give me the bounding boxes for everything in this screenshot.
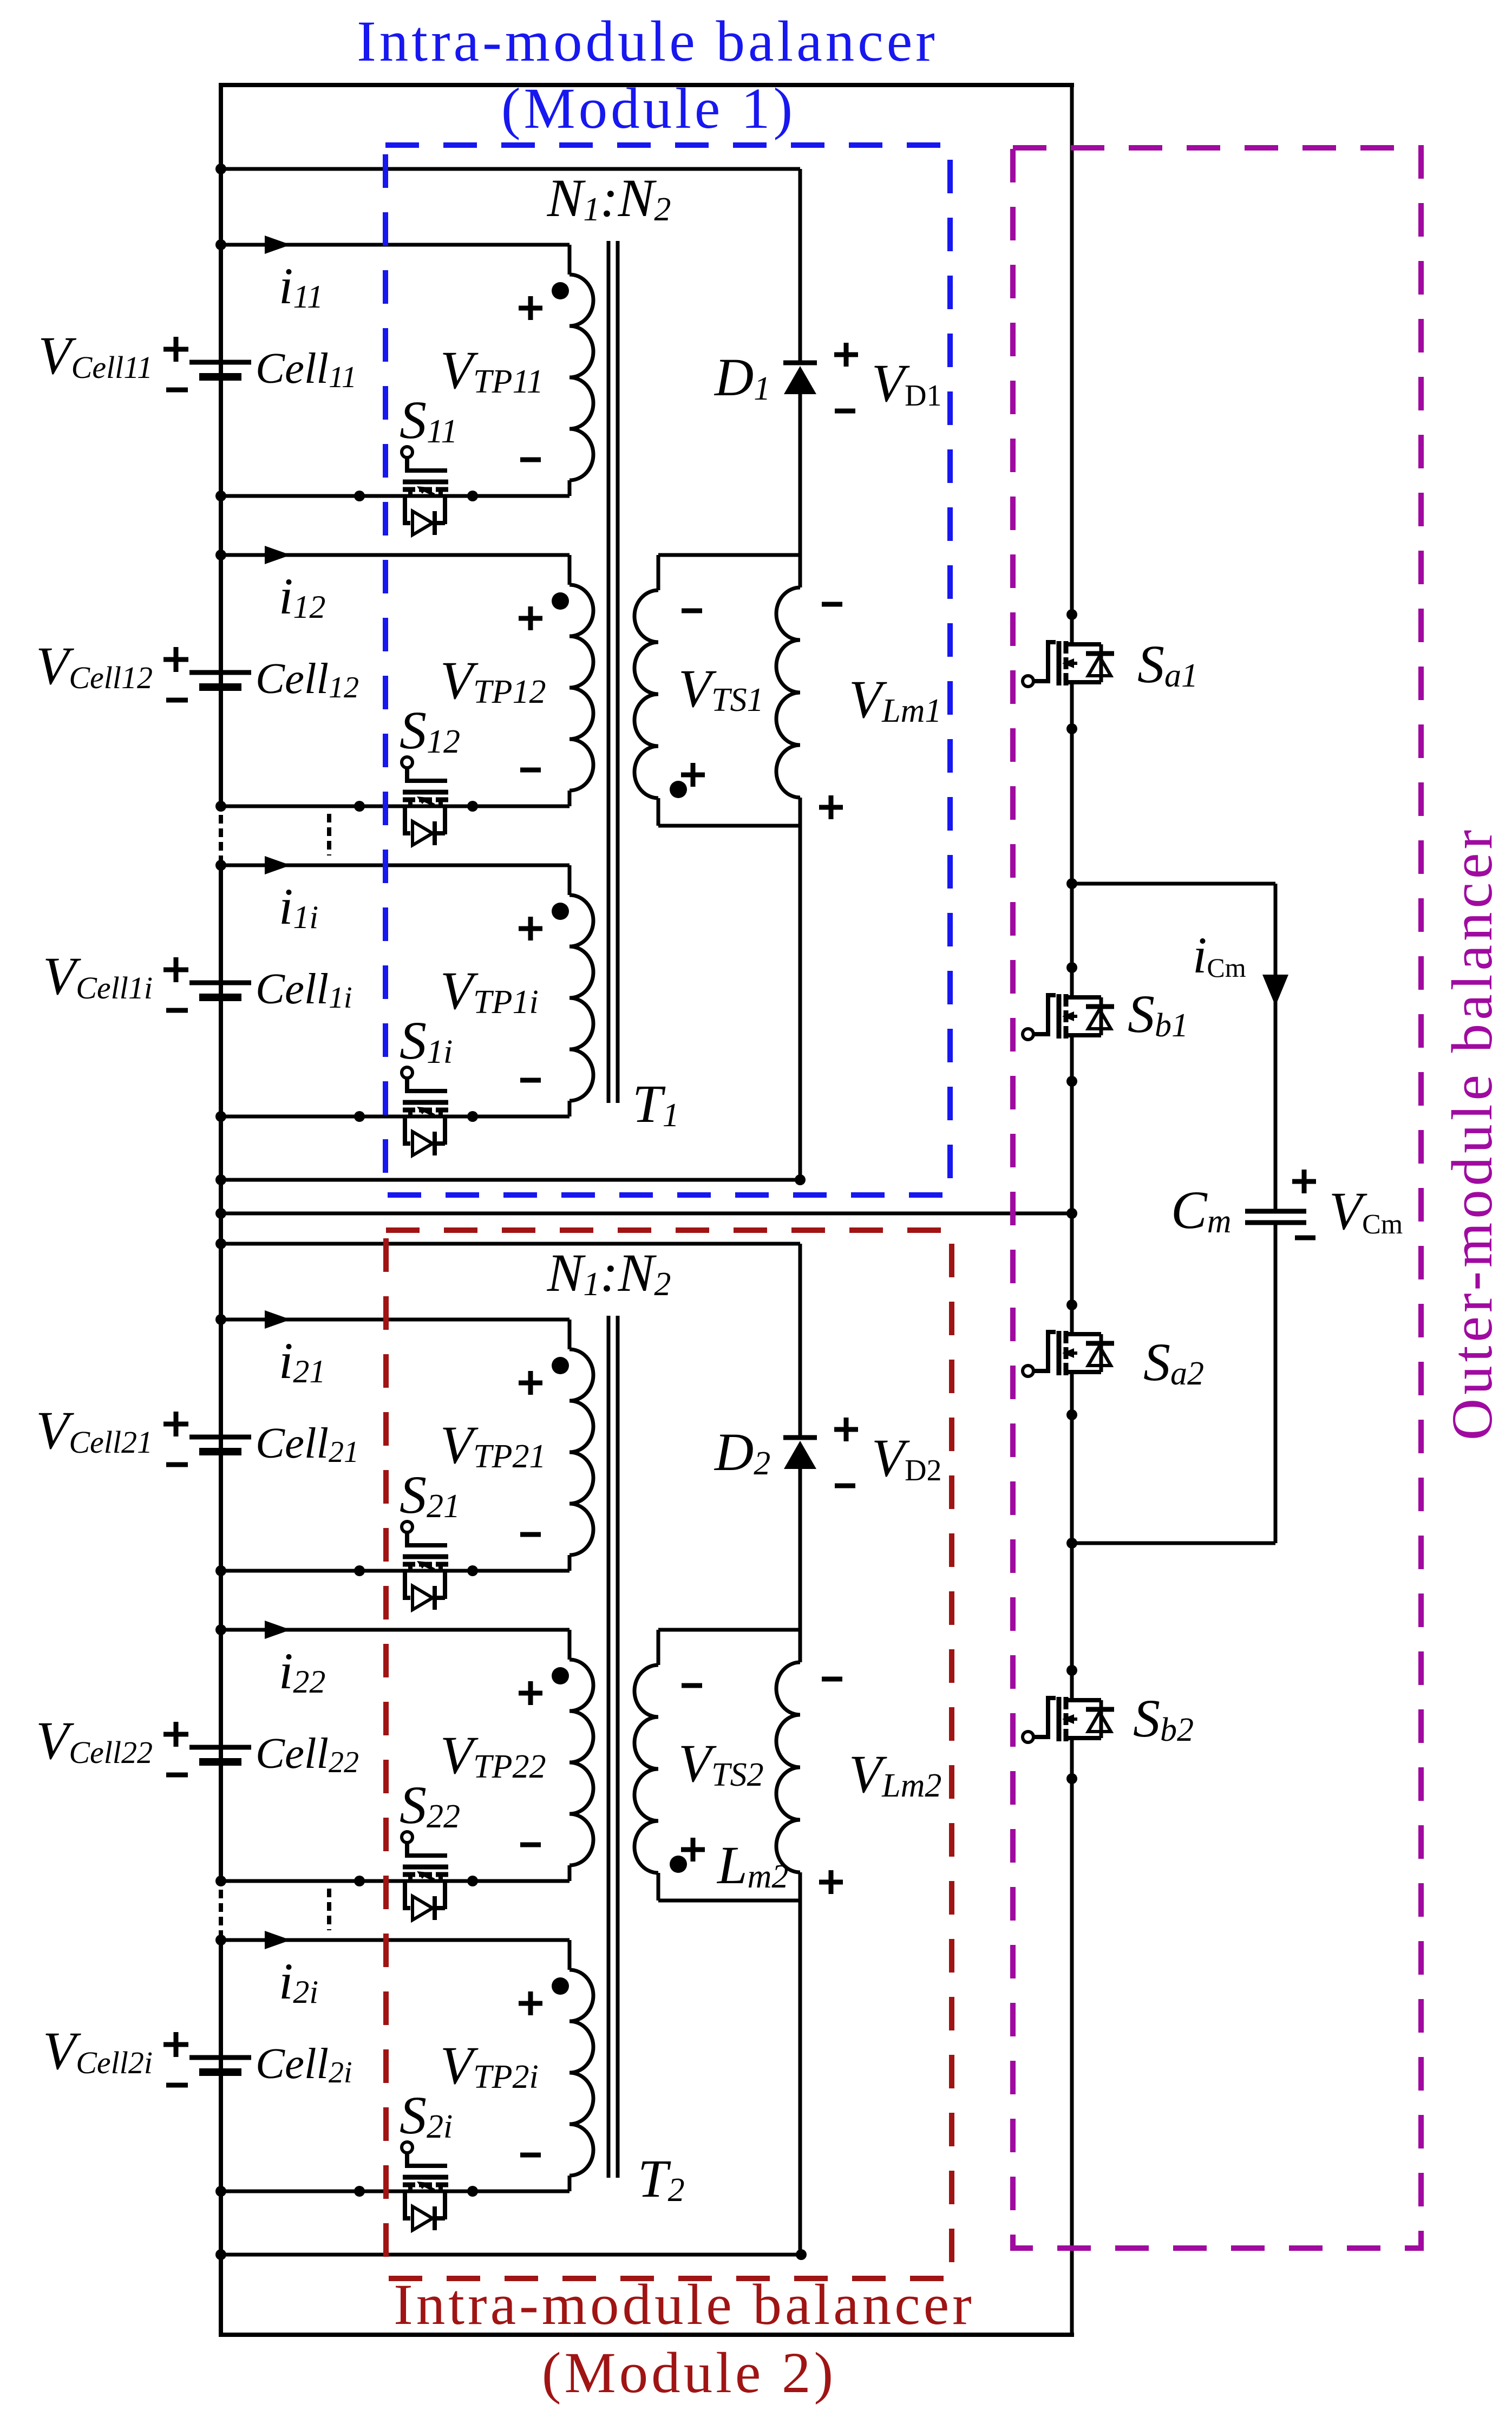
wire: cell 11 bottom branch xyxy=(221,494,570,498)
wire: left battery bus (lower segment) xyxy=(219,1941,223,2337)
node A: arrow i22 xyxy=(265,1621,291,1639)
transformer primary winding VTP1i phase dot xyxy=(552,903,569,920)
wire: secondary bottom link (module 2) xyxy=(658,1899,800,1903)
node: intra-module balancer boundary (module 1, blue dashed) xyxy=(385,145,950,1195)
wire: left battery bus (middle segment) xyxy=(219,866,223,1885)
diode D1 xyxy=(783,361,817,365)
svg-text:Intra-module balancer: Intra-module balancer xyxy=(394,2273,975,2337)
node A: arrow i12 xyxy=(265,546,291,564)
transistor S11 (MOSFET switch) xyxy=(402,447,413,458)
node: junction bus / module2 bottom rail xyxy=(215,2249,226,2260)
node: outer-module balancer boundary (purple dashed) xyxy=(1013,148,1421,2248)
battery Cell11 minus mark xyxy=(166,388,188,393)
transformer primary winding VTP11 phase dot xyxy=(552,282,569,299)
node: junction bus / module1 diode rail xyxy=(215,164,226,174)
transistor S22 (MOSFET switch) xyxy=(402,1832,413,1843)
diode D2 minus mark xyxy=(835,1484,855,1488)
wire: outer balancer vertical segments xyxy=(1070,85,1074,644)
battery Cell12 minus mark xyxy=(166,698,188,703)
transistor S12 (MOSFET switch) xyxy=(402,757,413,768)
wire: capacitor branch bottom link xyxy=(1072,1542,1275,1545)
transformer primary winding VTP1i xyxy=(568,865,572,895)
wire: left battery bus (upper segment) xyxy=(219,83,223,810)
node: junction link rail / outer balancer line xyxy=(1066,1208,1077,1219)
transformer primary winding VTP2i xyxy=(568,1940,572,1970)
transformer secondary winding VTS2 minus mark xyxy=(682,1683,702,1688)
diode D2 xyxy=(783,1435,817,1440)
transistor Sa2 (outer balancer MOSFET) xyxy=(1023,1366,1033,1376)
node A: arrow iCm (capacitor current) xyxy=(1262,975,1288,1006)
wire: dotted bus continuation (module 1) xyxy=(219,815,223,864)
battery Cell2i xyxy=(189,2055,251,2060)
transformer secondary winding VTS2 xyxy=(657,1630,660,1665)
wire: cell 1i top branch with current arrow xyxy=(221,864,570,867)
node: junction module2 bottom rail / magnetizing branch xyxy=(796,2249,807,2260)
battery Cell22 xyxy=(189,1745,251,1750)
battery Cell2i minus mark xyxy=(166,2083,188,2088)
node: intra-module balancer boundary (module 2, red dashed) xyxy=(386,1230,952,2278)
battery Cell12 xyxy=(189,670,251,675)
transformer primary winding VTP2i minus mark xyxy=(520,2153,541,2158)
transformer secondary winding VTS1 xyxy=(657,555,660,590)
transformer primary winding VTP12 phase dot xyxy=(552,592,569,610)
svg-text:Intra-module balancer: Intra-module balancer xyxy=(357,10,938,74)
battery Cell1i minus mark xyxy=(166,1008,188,1013)
inductor VLm1 plus mark xyxy=(819,805,843,810)
transformer secondary winding VTS2 phase dot xyxy=(670,1856,687,1873)
transformer primary winding VTP22 plus mark xyxy=(519,1691,542,1696)
inductor VLm2 magnetizing winding xyxy=(798,1630,802,1662)
inductor VLm2 minus mark xyxy=(822,1677,842,1682)
transformer T1 core xyxy=(607,241,611,1103)
battery Cell22 plus mark xyxy=(163,1732,188,1737)
svg-text:N1:N2: N1:N2 xyxy=(547,168,671,228)
node: junctions on outer balancer line xyxy=(1066,609,1077,620)
wire: magnetizing branch to bottom rail (module 1) xyxy=(798,826,802,1180)
transformer primary winding VTP22 phase dot xyxy=(552,1667,569,1684)
battery Cell21 xyxy=(189,1435,251,1440)
inductor VLm1 minus mark xyxy=(822,602,842,607)
wire: secondary top link (module 1) xyxy=(658,553,800,557)
transformer primary winding VTP1i plus mark xyxy=(519,926,542,931)
transformer secondary winding VTS2 plus mark xyxy=(681,1847,705,1852)
wire: magnetizing branch to bottom rail (module 2) xyxy=(798,1901,802,2255)
svg-text:(Module 1): (Module 1) xyxy=(501,77,796,141)
node A: arrow i11 xyxy=(265,236,291,254)
wire: secondary top link (module 2) xyxy=(658,1628,800,1632)
wire: cell 1i bottom branch xyxy=(221,1115,570,1119)
transformer primary winding VTP21 plus mark xyxy=(519,1381,542,1386)
wire: dotted continuation mark (module 1) xyxy=(327,814,331,855)
battery Cell12 plus mark xyxy=(163,657,188,662)
wire: module 1 bottom loop rail xyxy=(221,1178,800,1182)
wire: secondary bottom link (module 1) xyxy=(658,824,800,828)
transistor Sb1 (outer balancer MOSFET) xyxy=(1023,1029,1033,1040)
transformer T2 core xyxy=(607,1316,611,2178)
transformer secondary winding VTS1 plus mark xyxy=(681,773,705,778)
transformer secondary winding VTS1 minus mark xyxy=(682,609,702,613)
inductor VLm1 magnetizing winding xyxy=(798,555,802,587)
transformer primary winding VTP21 xyxy=(568,1320,572,1349)
transformer primary winding VTP21 minus mark xyxy=(520,1532,541,1537)
transistor S2i (MOSFET switch) xyxy=(402,2142,413,2153)
battery Cell21 plus mark xyxy=(163,1422,188,1427)
wire: cell 22 bottom branch xyxy=(221,1879,570,1883)
transistor Sa1 (outer balancer MOSFET) xyxy=(1023,676,1033,687)
transformer primary winding VTP12 xyxy=(568,555,572,585)
battery Cell21 minus mark xyxy=(166,1462,188,1467)
wire: dotted bus continuation (module 2) xyxy=(219,1890,223,1938)
wire: cell 12 bottom branch xyxy=(221,805,570,808)
capacitor Cm minus mark xyxy=(1295,1236,1315,1240)
battery Cell11 xyxy=(189,360,251,365)
capacitor Cm plus mark xyxy=(1292,1179,1316,1184)
wire: diode D2 to magnetizing branch xyxy=(798,1469,802,1630)
battery Cell11 plus mark xyxy=(163,347,188,352)
inductor VLm2 plus mark xyxy=(819,1880,843,1885)
diode D2 plus mark xyxy=(834,1427,858,1432)
transformer primary winding VTP21 phase dot xyxy=(552,1357,569,1374)
wire: module 2 diode-branch top rail xyxy=(221,1242,800,1246)
wire: dotted continuation mark (module 2) xyxy=(327,1889,331,1930)
wire: cell 11 top branch with current arrow xyxy=(221,243,570,247)
battery Cell1i plus mark xyxy=(163,968,188,972)
wire: bottom rail of battery pack xyxy=(219,2333,1074,2337)
node A: arrow i1i xyxy=(265,856,291,874)
svg-text:Outer-module balancer: Outer-module balancer xyxy=(1441,826,1504,1440)
node: junction bus / link rail xyxy=(215,1208,226,1219)
wire: capacitor branch top link xyxy=(1072,882,1275,886)
node: junction bus / module1 bottom rail xyxy=(215,1174,226,1185)
wire: module 1 diode-branch top rail xyxy=(221,167,800,171)
wire: cell 2i bottom branch xyxy=(221,2190,570,2193)
battery Cell22 minus mark xyxy=(166,1773,188,1778)
transformer primary winding VTP12 minus mark xyxy=(520,768,541,773)
transformer primary winding VTP2i phase dot xyxy=(552,1977,569,1995)
transformer primary winding VTP2i plus mark xyxy=(519,2001,542,2006)
battery Cell2i plus mark xyxy=(163,2042,188,2047)
transformer primary winding VTP1i minus mark xyxy=(520,1078,541,1083)
wire: cell 22 top branch with current arrow xyxy=(221,1628,570,1632)
transistor S21 (MOSFET switch) xyxy=(402,1521,413,1532)
battery Cell1i xyxy=(189,981,251,985)
transistor Sb2 (outer balancer MOSFET) xyxy=(1023,1732,1033,1742)
transformer primary winding VTP11 minus mark xyxy=(520,458,541,462)
wire: diode D1 to magnetizing branch xyxy=(798,394,802,555)
wire: module 2 bottom loop rail xyxy=(221,2253,801,2257)
node: junction module1 bottom rail / magnetizing branch xyxy=(795,1174,806,1185)
wire: secondary branch vertical (module 2) upper xyxy=(798,1244,802,1438)
transformer primary winding VTP11 xyxy=(568,245,572,275)
wire: capacitor branch vertical upper xyxy=(1274,884,1278,1211)
wire: inter-module link rail xyxy=(221,1212,1072,1216)
wire: cell 12 top branch with current arrow xyxy=(221,553,570,557)
wire: cell 2i top branch with current arrow xyxy=(221,1938,570,1942)
node A: arrow i2i xyxy=(265,1931,291,1949)
node A: arrow i21 xyxy=(265,1310,291,1329)
node: junction bus / module2 diode rail xyxy=(215,1238,226,1249)
wire: secondary branch vertical (module 1) upper xyxy=(798,169,802,363)
svg-text:(Module 2): (Module 2) xyxy=(542,2341,836,2405)
transformer secondary winding VTS1 phase dot xyxy=(670,781,687,798)
wire: cell 21 top branch with current arrow xyxy=(221,1318,570,1322)
transformer primary winding VTP22 xyxy=(568,1630,572,1660)
capacitor Cm xyxy=(1245,1209,1306,1214)
wire: cell 21 bottom branch xyxy=(221,1569,570,1573)
wire: capacitor branch vertical lower xyxy=(1274,1223,1278,1543)
transformer primary winding VTP22 minus mark xyxy=(520,1843,541,1847)
transformer primary winding VTP12 plus mark xyxy=(519,616,542,621)
transformer primary winding VTP11 plus mark xyxy=(519,306,542,311)
diode D1 minus mark xyxy=(835,409,855,414)
diode D1 plus mark xyxy=(834,352,858,357)
svg-text:N1:N2: N1:N2 xyxy=(547,1243,671,1303)
transistor S1i (MOSFET switch) xyxy=(402,1067,413,1078)
wire: top rail of battery pack xyxy=(219,83,1074,87)
